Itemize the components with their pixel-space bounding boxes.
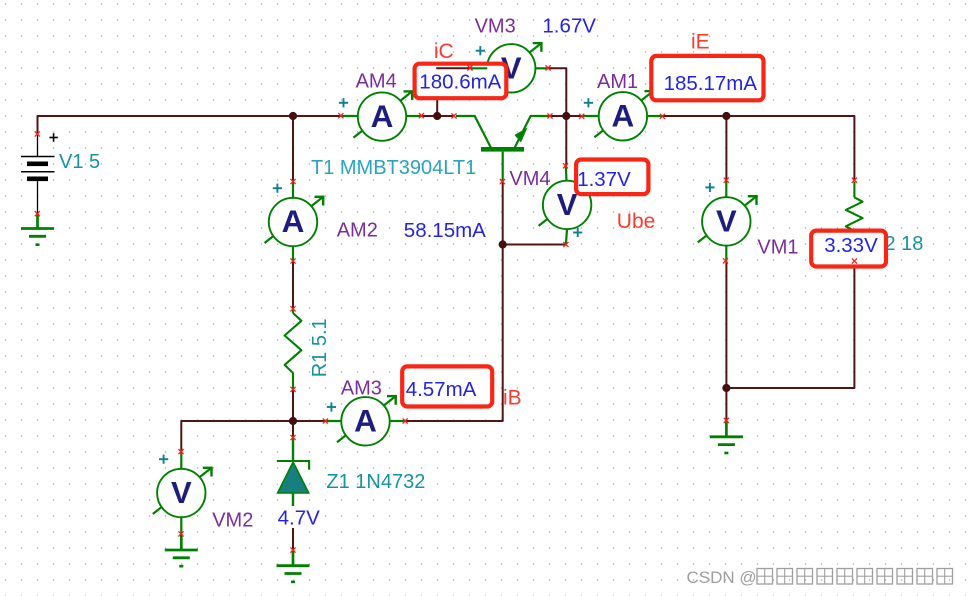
ground (battery V1) — [21, 214, 54, 245]
pin x-mark zener bottom — [290, 547, 295, 552]
pin x-mark VM4 bottom — [563, 242, 568, 247]
ammeter AM2 — [265, 196, 325, 247]
readout box iC / AM4 value — [415, 64, 507, 98]
voltmeter VM1 — [698, 195, 758, 246]
pin x-mark VM3 left — [467, 65, 472, 70]
pin x-mark AM4 right — [419, 113, 424, 118]
ammeter AM1 plus terminal mark — [584, 98, 593, 107]
ammeter AM3 plus terminal mark — [327, 402, 336, 411]
pin x-mark zener top — [290, 435, 295, 440]
svg-text:AM1: AM1 — [597, 71, 638, 93]
pin x-mark AM2 top — [290, 179, 295, 184]
pin x-mark AM4 left — [338, 113, 343, 118]
junction node battery/AM2/AM4 rail — [289, 112, 297, 120]
zener diode Z1 1N4732 — [277, 438, 310, 507]
ammeter AM3 pins — [325, 420, 405, 422]
wire zener Z1 bottom to ground — [292, 506, 294, 550]
svg-text:V1 5: V1 5 — [59, 151, 100, 173]
ammeter AM4 pins — [341, 115, 422, 117]
wire AM2 bottom to R1 top — [292, 261, 294, 309]
svg-text:R1 5.1: R1 5.1 — [309, 318, 331, 377]
label white backing for 4.7V — [275, 506, 323, 528]
svg-text:VM3: VM3 — [475, 16, 516, 38]
ammeter AM1 — [594, 90, 654, 141]
junction node ground right — [722, 384, 730, 392]
pin x-mark VM4 top — [563, 163, 568, 168]
ammeter AM2 pins — [292, 182, 294, 262]
svg-text:iC: iC — [434, 40, 454, 63]
svg-text:Ube: Ube — [617, 210, 656, 233]
wire ground node stub — [725, 388, 727, 420]
pin x-mark battery bottom — [35, 211, 40, 216]
svg-text:58.15mA: 58.15mA — [404, 219, 486, 242]
readout box iE / AM1 value — [651, 56, 763, 100]
voltmeter VM2 — [153, 467, 213, 518]
voltmeter VM2 pins — [180, 452, 182, 534]
pin x-mark AM3 left — [323, 418, 328, 423]
ground (zener Z1) — [277, 550, 310, 582]
svg-text:AM4: AM4 — [356, 71, 397, 93]
pin x-mark R2 top — [852, 178, 857, 183]
voltmeter VM4 pins — [566, 166, 567, 245]
voltmeter VM4 — [539, 179, 599, 230]
svg-text:A: A — [354, 403, 377, 439]
wire R2 bottom to ground node — [726, 261, 854, 388]
voltmeter VM3 plus terminal mark — [476, 46, 485, 55]
pin x-mark base pin — [500, 179, 505, 184]
wire node to VM1 top — [725, 116, 727, 180]
svg-text:4.7V: 4.7V — [278, 507, 320, 530]
ammeter AM2 plus terminal mark — [273, 184, 282, 193]
svg-text:VM4: VM4 — [509, 168, 550, 190]
ammeter AM4 plus terminal mark — [339, 98, 348, 107]
wire AM4 to collector node — [422, 115, 455, 117]
voltmeter VM3 — [483, 42, 543, 93]
svg-text:VM2: VM2 — [212, 509, 253, 531]
pin x-mark R2 bottom — [852, 258, 857, 263]
wire AM3 right up to base junction — [405, 182, 503, 421]
battery V1 plus polarity mark — [49, 133, 58, 142]
pin x-mark AM3 right — [403, 418, 408, 423]
ammeter AM4 — [354, 90, 414, 140]
ground (voltmeter VM2) — [165, 534, 198, 566]
pin x-mark AM2 bottom — [290, 258, 295, 263]
ammeter AM1 pins — [582, 115, 663, 117]
pin x-mark R1 top — [290, 306, 295, 311]
svg-text:iB: iB — [503, 387, 522, 410]
wire VM4 bottom to base junction — [503, 244, 566, 246]
readout box VM1 value 3.33V — [811, 231, 886, 267]
resistor R2 — [846, 182, 863, 261]
junction node collector — [433, 112, 441, 120]
svg-text:AM3: AM3 — [341, 378, 382, 400]
wire R1 bottom to base node — [292, 389, 294, 421]
wire collector node to VM3 left terminal (horizontal) — [436, 67, 470, 69]
voltmeter VM1 pins — [725, 180, 727, 261]
wire AM1 to R2 top (top rail right) — [662, 116, 854, 180]
watermark CJK glyph approximation — [757, 569, 953, 585]
svg-text:iE: iE — [691, 31, 710, 54]
svg-text:V: V — [716, 204, 737, 239]
resistor R1 — [285, 309, 302, 390]
svg-text:V: V — [557, 187, 578, 222]
readout box Ube / VM4 value — [576, 160, 648, 195]
voltmeter VM4 plus terminal mark — [573, 228, 582, 237]
svg-text:3.33V: 3.33V — [824, 234, 878, 257]
pin x-mark AM1 right — [660, 114, 665, 119]
wire VM1 bottom to ground node — [725, 261, 727, 388]
voltmeter VM3 pins — [470, 67, 548, 69]
junction node base/VM4 — [499, 240, 507, 248]
svg-text:V: V — [171, 475, 192, 510]
junction node AM1/VM1/R2 — [722, 112, 730, 120]
wire top rail to AM2 top — [292, 116, 294, 182]
wire collector node up to VM3 left (vertical, under readout) — [436, 68, 438, 116]
pin x-mark AM1 left — [579, 114, 584, 119]
svg-text:185.17mA: 185.17mA — [664, 72, 758, 95]
pin x-mark R1 bottom — [290, 387, 295, 392]
svg-text:A: A — [282, 203, 305, 239]
pin x-mark right ground — [724, 418, 729, 423]
svg-text:1.67V: 1.67V — [542, 15, 596, 38]
pin x-mark battery top — [35, 131, 40, 136]
svg-text:Z1 1N4732: Z1 1N4732 — [326, 471, 425, 493]
pin x-mark collector — [451, 113, 456, 118]
pin x-mark VM1 top — [724, 178, 729, 183]
wire node to VM2 top — [181, 421, 293, 452]
battery V1 — [21, 134, 55, 214]
pin x-mark VM3 right — [546, 65, 551, 70]
ammeter AM3 — [337, 395, 397, 445]
wire battery V1 to AM4 (top rail left) — [38, 116, 341, 134]
junction node emitter — [562, 112, 570, 120]
svg-text:A: A — [371, 98, 394, 134]
pin x-mark emitter — [547, 113, 552, 118]
junction node base divider — [289, 417, 297, 425]
transistor Q T1 MMBT3904LT1 — [456, 116, 550, 182]
svg-text:4.57mA: 4.57mA — [406, 378, 477, 401]
wire emitter node to AM1 — [550, 115, 582, 117]
voltmeter VM2 plus terminal mark — [159, 455, 168, 464]
svg-text:180.6mA: 180.6mA — [419, 70, 501, 93]
readout box iB / AM3 value — [402, 366, 492, 406]
svg-text:VM1: VM1 — [757, 236, 798, 258]
pin x-mark VM1 bottom — [723, 258, 728, 263]
wire VM3 right terminal down to emitter node and VM4 top — [548, 68, 566, 166]
svg-text:AM2: AM2 — [337, 220, 378, 242]
svg-text:A: A — [612, 98, 635, 134]
svg-text:CSDN @: CSDN @ — [687, 568, 757, 587]
svg-text:1.37V: 1.37V — [577, 168, 631, 191]
ground (right branch) — [710, 420, 743, 453]
wire node to zener Z1 top — [292, 421, 294, 438]
wire node to AM3 left — [293, 420, 325, 422]
pin x-mark VM2 bottom — [178, 531, 183, 536]
voltmeter VM1 plus terminal mark — [705, 183, 714, 192]
pin x-mark VM2 top — [178, 449, 183, 454]
svg-text:T1 MMBT3904LT1: T1 MMBT3904LT1 — [311, 157, 476, 179]
